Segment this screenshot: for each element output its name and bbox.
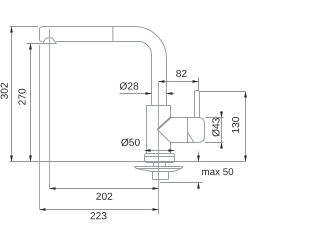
dim 130 vertical line: [245, 92, 247, 162]
V joint lower diagonal: [157, 130, 170, 143]
label 202: [96, 193, 112, 200]
handle lever: [195, 91, 200, 118]
82 right arrow: [193, 80, 199, 83]
mounting flange: [134, 167, 183, 172]
202 left arrow: [50, 187, 56, 190]
aerator dome: [42, 38, 56, 44]
dim o43 top extension: [205, 117, 223, 119]
label max50: [202, 168, 233, 175]
o43 bottom arrow (points up): [220, 143, 223, 149]
dim max50 vertical lower: [198, 183, 200, 190]
223 right arrow: [153, 208, 159, 211]
spout arm bottom-left corner: [40, 40, 43, 41]
o50 right arrow: [169, 149, 175, 152]
aerator centre extension line (202): [49, 29, 51, 189]
dim 82 right extension: [198, 78, 200, 91]
dim 270 top extension: [27, 43, 42, 45]
dim 202 line: [50, 188, 159, 190]
spout tip extension line (223): [39, 45, 41, 209]
dim 130 top extension: [200, 91, 246, 93]
270 up arrow: [29, 44, 32, 50]
dim o43 bottom extension: [205, 142, 223, 144]
dim o43 vertical line: [221, 111, 223, 149]
housing inner diagonal: [188, 133, 194, 143]
housing cap seam: [187, 118, 189, 143]
302 down arrow: [10, 156, 13, 162]
dim o50 line: [145, 150, 175, 152]
base cylinder: [145, 154, 175, 163]
cartridge housing: [171, 118, 205, 143]
arrowheads: [10, 27, 247, 211]
centre axis line: [158, 82, 160, 215]
label o28: [120, 82, 138, 90]
faucet body: [147, 106, 171, 154]
dim 302 top extension: [10, 26, 39, 28]
o50 left arrow: [145, 149, 151, 152]
o43 top arrow (points down): [220, 112, 223, 118]
o28 right-pointing arrow: [146, 92, 152, 95]
dim 270 vertical line: [30, 44, 32, 162]
V joint upper diagonal (thick seam): [157, 118, 170, 130]
223 left arrow: [40, 208, 46, 211]
dim max50 vertical upper: [198, 152, 200, 162]
dim 223 line: [40, 209, 159, 211]
label 130: [232, 117, 239, 133]
dim o28 leader left: [120, 93, 152, 95]
302 up arrow: [10, 27, 13, 33]
label 223: [90, 212, 106, 219]
spout arm outer edge and riser pipe outer edge: [40, 27, 167, 106]
dimension texts: [1, 70, 240, 219]
130 down arrow: [244, 156, 247, 162]
202 right arrow: [153, 187, 159, 190]
dim max50 bottom extension: [160, 182, 203, 184]
neck: [154, 163, 166, 167]
82 left arrow: [159, 80, 165, 83]
dim 82 line: [159, 81, 199, 83]
base seam line: [145, 156, 175, 158]
max50 bottom arrow (points up): [197, 183, 200, 189]
spout arm inner (bottom) edge and inner bend, riser pipe inner edge: [56, 42, 151, 106]
max50 top arrow (points down): [197, 156, 200, 162]
dim o28 leader right: [167, 93, 175, 95]
dim 302 vertical line: [11, 27, 13, 162]
threaded shank: [153, 172, 169, 180]
o28 left-pointing arrow: [167, 92, 173, 95]
label o50: [121, 139, 140, 147]
countertop extension line: [10, 161, 247, 163]
130 up arrow: [244, 92, 247, 98]
label 302: [1, 83, 8, 99]
270 down arrow: [29, 156, 32, 162]
label 270: [18, 89, 25, 105]
label 82: [176, 70, 186, 77]
label o43: [212, 118, 220, 136]
spout joint line: [112, 27, 114, 42]
